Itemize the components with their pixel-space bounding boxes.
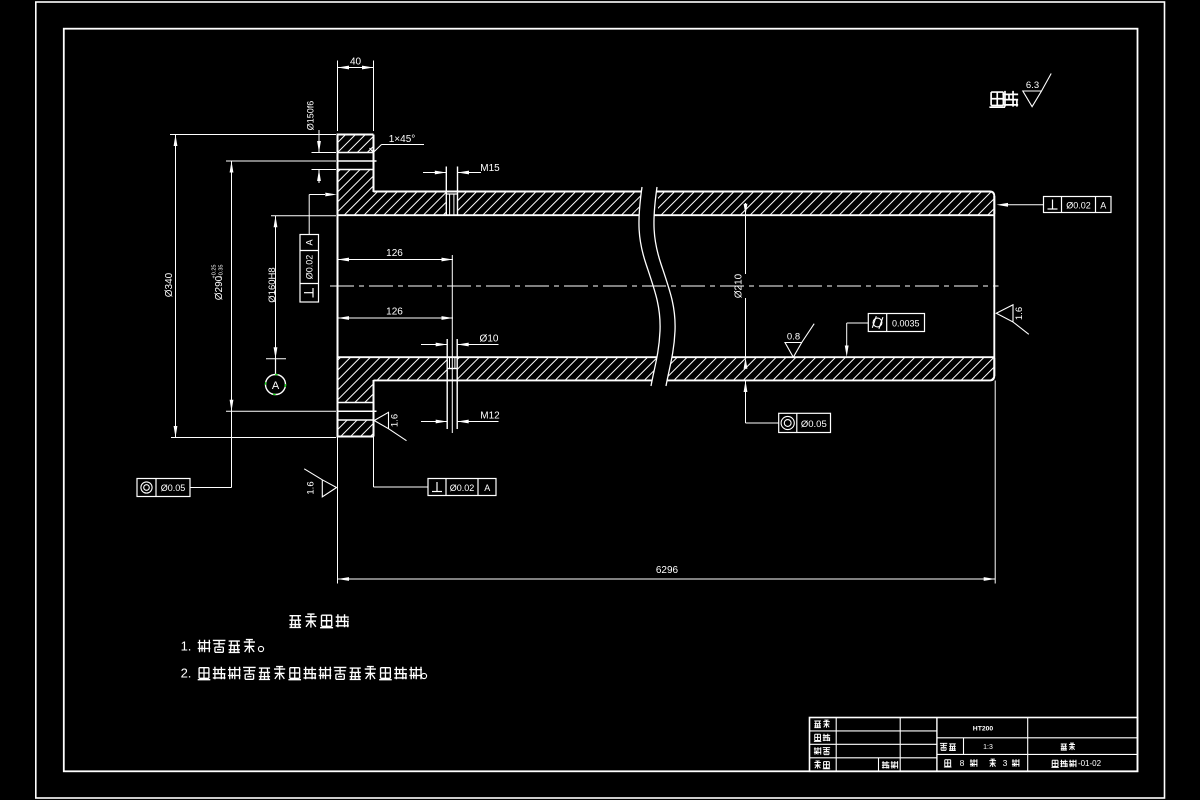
chamfer edge 1x45 [370, 148, 374, 153]
title block frame [810, 718, 1138, 772]
dim O150f6 ext lines [312, 152, 337, 154]
svg-text:Ø210: Ø210 [734, 273, 745, 298]
bottom groove line 1 [338, 402, 374, 404]
break line right [654, 187, 675, 386]
svg-text:-01-02: -01-02 [1078, 759, 1102, 768]
svg-text:6296: 6296 [656, 565, 679, 576]
fcf left frame [300, 235, 319, 303]
svg-text:Ø340: Ø340 [164, 272, 175, 297]
svg-text:A: A [484, 483, 490, 493]
bottom groove line 3 [338, 419, 374, 421]
fcf right frame [1044, 197, 1112, 213]
fcf concentric mid frame [779, 413, 831, 432]
top groove line 1 [338, 152, 374, 154]
roughness 1.6 flange step [374, 412, 406, 440]
roughness 6.3 (other surfaces) symbol [1023, 74, 1051, 107]
hatch: flange top block [338, 135, 374, 153]
hatch: flange upper column [338, 170, 374, 215]
svg-text:Ø150f6: Ø150f6 [306, 101, 316, 131]
svg-text:Ø0.05: Ø0.05 [801, 419, 827, 430]
svg-text:A: A [1100, 200, 1106, 210]
svg-text:0.0035: 0.0035 [892, 318, 920, 328]
dim O340 line [175, 135, 177, 438]
svg-text:40: 40 [350, 57, 362, 68]
dim O290 ext bottom [226, 410, 336, 412]
flange right face upper [373, 135, 375, 193]
svg-text:2.: 2. [181, 666, 192, 681]
svg-text:A: A [305, 239, 315, 245]
svg-text:1.6: 1.6 [1014, 307, 1025, 320]
dim 126 bottom line [338, 317, 454, 319]
dim O340 ext top [170, 134, 336, 136]
M15 hole right line [457, 167, 459, 216]
fcf left leader [308, 195, 310, 235]
holes center line [451, 255, 453, 433]
svg-text:3: 3 [1003, 758, 1008, 768]
barrel bottom edge [374, 358, 995, 380]
title labels left [814, 721, 821, 728]
bore bottom line [338, 356, 995, 358]
svg-text:Ø160H8: Ø160H8 [267, 267, 278, 302]
hatch: flange lower column [338, 358, 374, 403]
fcf cylindricity symbol [873, 318, 882, 327]
fcf bottom perp symbol [436, 482, 438, 492]
hatch: flange bottom block [338, 420, 374, 437]
dim 6296 ext right [994, 381, 996, 584]
svg-text:126: 126 [386, 307, 403, 318]
fcf concentric left leader [190, 487, 232, 489]
roughness 1.6 right end [996, 305, 1029, 335]
svg-text:1.6: 1.6 [390, 414, 401, 427]
fcf bottom frame [428, 479, 496, 496]
dim 40 line [338, 67, 374, 69]
chamfer leader [382, 144, 425, 146]
flange bottom edge [337, 436, 374, 438]
fcf cylindricity leader [847, 322, 869, 324]
svg-text:M15: M15 [480, 163, 500, 174]
hatch: bottom wall band M12..break [457, 358, 660, 380]
title sheet count [944, 760, 952, 767]
svg-text:0.8: 0.8 [787, 332, 800, 343]
dim O290 ext top [226, 160, 336, 162]
svg-text:Ø0.05: Ø0.05 [161, 483, 186, 493]
dim 6296 line [338, 578, 996, 580]
svg-text:Ø10: Ø10 [480, 334, 499, 345]
hatch: bottom wall band left of M12 hole [374, 358, 448, 380]
roughness 1.6 flange face lower [304, 469, 336, 497]
dim 40 ext lines [337, 61, 339, 132]
fcf right perp symbol [1052, 200, 1054, 210]
hatch: top wall band M15..break [458, 192, 650, 215]
fcf cylindricity frame [868, 314, 924, 332]
svg-text:1.: 1. [181, 639, 192, 654]
dim 6296 ext left [337, 437, 339, 584]
flange top edge [337, 134, 374, 136]
hatch: bottom wall band right of break [668, 358, 994, 380]
roughness 0.8 bore [785, 324, 814, 358]
svg-text:A: A [272, 380, 280, 392]
svg-text:8: 8 [960, 758, 965, 768]
svg-text:+0.25: +0.25 [212, 265, 218, 279]
dim 126 top line [338, 259, 454, 261]
svg-text:1×45°: 1×45° [389, 134, 416, 145]
top groove line 2 [338, 160, 377, 162]
tech requirements title [289, 616, 301, 628]
top groove line 3 [338, 169, 374, 171]
svg-text:126: 126 [386, 248, 403, 259]
dim M12 tails [421, 421, 447, 423]
break line left [639, 187, 660, 386]
svg-text:6.3: 6.3 [1026, 80, 1039, 91]
datum A circle [266, 375, 286, 395]
dim O10 tails [421, 344, 447, 346]
title scale label [940, 743, 947, 750]
svg-text::: : [346, 613, 350, 629]
svg-text:Ø0.02: Ø0.02 [1066, 200, 1091, 210]
dim O150f6 line and arrows [318, 130, 320, 153]
bottom groove line 2 [338, 410, 377, 412]
dim O160H8 ext bottom tick [266, 358, 286, 360]
fcf left perp symbol [304, 292, 313, 294]
fcf right leader [1008, 204, 1044, 206]
title drawing number [1051, 760, 1058, 767]
barrel top edge [374, 192, 995, 215]
svg-text:Ø0.02: Ø0.02 [450, 483, 475, 493]
fcf bottom leader [373, 437, 375, 488]
flange left face [337, 135, 339, 437]
break gap mask [639, 187, 675, 386]
fcf concentric mid leader [745, 381, 747, 424]
fcf concentric left frame [137, 479, 190, 497]
dim O160H8 ext top [271, 215, 336, 217]
M15 hole left line [445, 167, 447, 216]
dim M15 tails [423, 172, 446, 174]
bottom hole right line [456, 339, 458, 429]
bottom hole inner lines [449, 358, 451, 369]
svg-text:+0.35: +0.35 [219, 265, 225, 279]
M15 thread inner lines [449, 194, 451, 215]
title block grid [810, 730, 937, 732]
fcf concentric mid symbol [781, 416, 794, 429]
title part name [1061, 744, 1067, 750]
fcf concentric left symbol [141, 482, 152, 493]
dim O160H8 line [275, 216, 277, 359]
svg-text:M12: M12 [480, 411, 500, 422]
dim O290 line [231, 161, 233, 411]
qi yu text [989, 92, 1005, 107]
hatch: top wall band right of break [658, 192, 994, 215]
flange right face lower [373, 380, 375, 437]
dim O340 ext bottom [171, 437, 336, 439]
barrel right end face [993, 196, 995, 376]
datum A stem [275, 359, 277, 375]
bore top line [338, 214, 995, 216]
hatch: top wall band left of M15 hole [374, 192, 447, 215]
center axis line [330, 285, 999, 287]
svg-text:HT200: HT200 [973, 726, 994, 733]
dim O210 line segments [745, 203, 747, 274]
svg-text:1.6: 1.6 [306, 481, 317, 494]
svg-text:Ø0.02: Ø0.02 [305, 255, 315, 280]
svg-text:1:3: 1:3 [983, 744, 993, 751]
bottom hole left line [446, 339, 448, 429]
